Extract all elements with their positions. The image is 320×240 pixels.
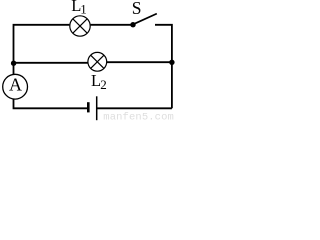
switch S pivot dot bbox=[130, 22, 135, 27]
ammeter A bbox=[3, 74, 28, 99]
wire top-left: left vertical upper + top horizontal to L1 bbox=[14, 25, 70, 64]
wire: switch right contact to top-right corner and right vertical bbox=[155, 25, 172, 109]
wire: middle branch right (L2 to right junction) bbox=[107, 61, 172, 63]
svg-text:manfen5.com: manfen5.com bbox=[103, 111, 174, 122]
node junction right (dot) bbox=[169, 60, 174, 65]
wire: middle branch left (junction to L2) bbox=[14, 62, 89, 64]
wire: battery long plate to bottom-right corner bbox=[97, 107, 172, 109]
switch S blade bbox=[134, 14, 157, 25]
battery negative plate (short thick) bbox=[87, 102, 90, 112]
lamp L1 symbol bbox=[70, 16, 90, 36]
svg-text:S: S bbox=[132, 0, 142, 18]
node junction left (dot) bbox=[11, 61, 16, 66]
wire: junction down to ammeter top bbox=[13, 63, 15, 74]
svg-text:1: 1 bbox=[80, 2, 87, 17]
wire: L1 right to switch pivot bbox=[91, 24, 132, 26]
svg-text:A: A bbox=[9, 75, 22, 95]
battery positive plate (long thin) bbox=[96, 96, 98, 120]
lamp L2 symbol bbox=[88, 52, 107, 71]
wire: ammeter bottom to bottom-left corner and bottom wire to battery bbox=[14, 99, 88, 108]
svg-text:2: 2 bbox=[100, 77, 107, 92]
